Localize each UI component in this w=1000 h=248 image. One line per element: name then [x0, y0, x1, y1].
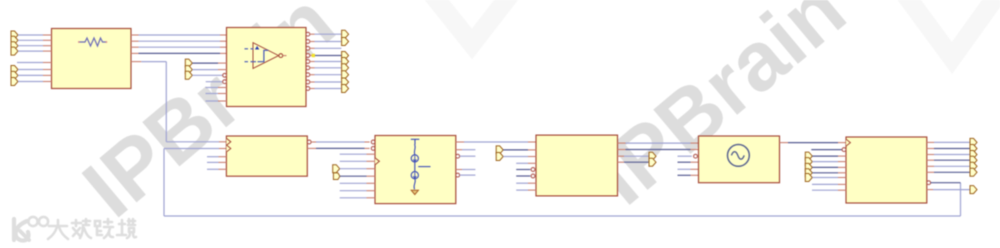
- svg-text:IPBrain: IPBrain: [577, 0, 863, 222]
